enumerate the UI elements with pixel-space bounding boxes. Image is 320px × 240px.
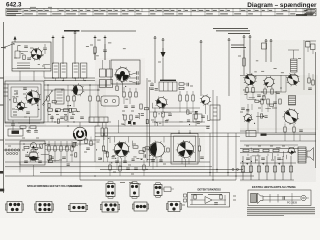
osc coil can L4	[81, 63, 87, 78]
scan tone wash left IF	[4, 76, 46, 126]
caps row y118	[50, 116, 54, 118]
mid-left nodes	[47, 84, 48, 85]
supply bus y141p	[240, 140, 316, 142]
supply parts y158	[246, 157, 250, 159]
supply bus y148p	[240, 148, 298, 150]
terminal wire 8	[200, 42, 202, 96]
rail y126 ext	[95, 125, 140, 127]
svg-text:642.3: 642.3	[6, 1, 22, 8]
switch bus y162	[5, 161, 210, 163]
detector left marks	[184, 194, 187, 197]
tuner inner parts	[23, 55, 25, 60]
cap pair right of can	[27, 130, 31, 132]
mixer below wire	[122, 82, 124, 92]
label specks top	[93, 53, 96, 55]
coil diagram B2	[36, 202, 52, 213]
note row	[81, 30, 136, 32]
left margin tick y105	[0, 104, 4, 106]
measurement note block	[213, 28, 250, 33]
output cathode parts	[284, 127, 286, 132]
padder stack	[124, 115, 126, 120]
left margin mark y190	[0, 189, 4, 192]
osc coil can mid	[55, 89, 64, 104]
gram pickup component	[161, 52, 166, 58]
right cluster mid parts	[257, 94, 261, 96]
IF input stubs	[4, 83, 9, 85]
anode resistor row mid	[179, 95, 181, 101]
switch tube V13	[27, 150, 39, 162]
switch contact chain	[5, 149, 7, 151]
audio double box	[171, 134, 198, 165]
supply bus y152p	[240, 152, 296, 154]
switch cluster extra	[24, 146, 29, 148]
left column parts audio	[85, 139, 87, 144]
bus line y169.4	[100, 168, 243, 170]
scan tone wash mid cluster	[44, 78, 106, 120]
detail cluster mixer lower	[138, 113, 139, 114]
aerial coil can L1	[53, 63, 59, 78]
supply dark bar	[261, 134, 267, 136]
converter tube V1	[30, 47, 43, 60]
switch upper circle	[31, 143, 37, 149]
switch bus y166.8	[5, 166, 212, 168]
scan tone wash tuner	[11, 41, 53, 73]
bus vertical x213b	[212, 133, 214, 180]
grid leak box right	[210, 105, 220, 120]
coupling transformer box	[159, 82, 177, 91]
speaker hookup box	[248, 190, 311, 206]
anode bar dark	[160, 79, 176, 81]
terminal wire 2	[62, 38, 64, 65]
wire h y92 right	[244, 91, 286, 93]
aerial switch	[4, 44, 14, 48]
header table frame	[6, 8, 316, 16]
central h wires	[152, 107, 200, 109]
bus line y172.5	[40, 172, 252, 174]
resistor row y110	[48, 109, 53, 111]
output transformer	[298, 147, 306, 163]
detail cluster IF box	[38, 109, 39, 110]
switch to rail stubs	[19, 162, 21, 173]
terminal wire 13	[270, 41, 272, 62]
coil diagram A2	[130, 184, 139, 197]
scan tone wash mixer	[95, 58, 145, 90]
hookup fine print	[247, 208, 315, 216]
wire h y75 right	[240, 75, 298, 77]
text bits under rails	[120, 182, 125, 184]
coil diagram B1	[7, 202, 22, 213]
audio top stubs	[178, 130, 180, 134]
detector pin labels	[191, 193, 222, 195]
header table middle rule	[6, 11, 316, 13]
V10 left parts	[102, 146, 104, 151]
electro plus marks	[246, 163, 248, 165]
coil diagram B6	[168, 202, 180, 212]
parts under mixer2	[123, 92, 125, 97]
tuner bottom wires	[12, 68, 51, 70]
V12 right parts	[198, 146, 200, 151]
speaker wires	[306, 149, 307, 151]
mixer shield box	[111, 60, 140, 84]
IF detector tube V6	[155, 96, 168, 109]
right edge boxes top	[306, 42, 311, 48]
output coil hatched	[289, 96, 296, 106]
wire x217c	[216, 96, 218, 133]
IF shield outer box	[5, 81, 44, 123]
dropper resistor right	[243, 58, 245, 66]
note over coils bold	[64, 30, 80, 32]
detector inset box	[188, 193, 230, 208]
rail nodes	[94, 175, 95, 176]
tube VA parts	[246, 88, 248, 93]
caps above V6	[150, 83, 154, 85]
terminal wire 9	[228, 40, 230, 96]
bus vertical x210	[209, 133, 211, 176]
detail cluster tuner	[38, 64, 40, 66]
IF bus pair top	[44, 77, 95, 79]
wire x258 right	[257, 112, 259, 133]
bus vertical x228	[227, 133, 229, 176]
terminal wire 3	[74, 33, 76, 64]
switch right parts	[48, 146, 50, 151]
parts x196-206	[195, 114, 197, 119]
switch bus y140	[5, 139, 100, 141]
terminal wire 12	[265, 41, 267, 62]
output pentode V12	[176, 140, 195, 159]
trimmer row under IF	[20, 126, 26, 128]
V11 pin leads	[152, 157, 154, 162]
svg-text:DETEKTORKREDS: DETEKTORKREDS	[198, 188, 222, 192]
mixer cap x105	[103, 49, 107, 51]
right edge wire	[315, 52, 317, 168]
svg-text:EKSTRA HØJTALERTILSLUTNING: EKSTRA HØJTALERTILSLUTNING	[252, 185, 296, 189]
detail cluster audio mid	[141, 159, 142, 160]
scan tone wash right top	[240, 40, 316, 95]
cells box	[89, 117, 108, 123]
V10 pin leads	[117, 157, 119, 162]
tube VB	[263, 76, 275, 88]
output tube V9	[283, 108, 300, 125]
supply resistor row	[243, 149, 249, 151]
screen resistors row	[47, 96, 49, 101]
hookup jack right	[301, 195, 306, 200]
speaker symbol	[307, 148, 314, 161]
note right small	[231, 45, 246, 48]
svg-text:( PA KABINET ): ( PA KABINET )	[69, 185, 83, 188]
wire VC top	[293, 50, 295, 59]
detail cluster central	[165, 119, 168, 121]
scan tone wash right mid	[240, 75, 318, 130]
bus vertical x217b	[216, 133, 218, 173]
mixer tube V2	[114, 66, 131, 83]
left border rule	[3, 22, 5, 193]
IF transformer can small	[8, 129, 23, 136]
osc coil box round	[101, 96, 119, 106]
tone control parts	[109, 165, 111, 170]
coil diagram B3	[70, 204, 86, 212]
tuner shield box	[12, 42, 51, 71]
terminal wire 10	[243, 37, 245, 75]
AF pre tube V7	[200, 94, 211, 105]
resistor cap row right of box	[179, 83, 184, 85]
wire x213c	[212, 90, 214, 133]
supply bus y180p	[240, 179, 294, 181]
header table column rules	[23, 8, 316, 16]
main rail y136.5	[95, 136, 240, 138]
long wire x147	[146, 78, 148, 162]
svg-text:PG 3939: PG 3939	[287, 202, 297, 205]
audio coupling parts	[133, 146, 138, 148]
detail cluster audio left	[103, 149, 106, 151]
tube VA	[243, 73, 256, 86]
main rail y133	[95, 132, 316, 134]
pilot lamp tube	[287, 147, 296, 156]
header cell text speckle	[7, 7, 315, 15]
tube VC	[286, 73, 300, 87]
switch arm diagonal	[43, 91, 52, 104]
switch right extra	[71, 146, 73, 151]
left margin tick y140	[0, 139, 4, 141]
driver coil hatched	[291, 59, 298, 72]
osc coil can L3	[73, 63, 79, 78]
supply wires top	[240, 130, 246, 132]
first AF tube V10	[113, 141, 130, 159]
mixer fan caps	[129, 73, 136, 75]
detail cluster switch	[73, 142, 75, 146]
chassis terminals	[232, 168, 234, 170]
switch labels	[8, 145, 11, 147]
bus wire y85a	[44, 84, 111, 86]
supply top small box	[246, 131, 256, 137]
oscillator triode V4	[16, 101, 27, 112]
VD wires	[247, 104, 249, 114]
tuner coils	[17, 62, 30, 64]
IF inner parts	[23, 87, 27, 89]
hookup speaker left	[258, 193, 264, 204]
IF shield inner box	[8, 84, 41, 120]
coil diagram B4	[102, 202, 118, 212]
terminal wire 11	[249, 37, 251, 74]
detector triangle	[205, 197, 212, 204]
hookup wires	[263, 196, 300, 198]
bus wire y122a	[5, 121, 111, 123]
hookup output transformer dark	[251, 194, 257, 203]
switch bus y144	[5, 143, 95, 145]
supply bus y145p	[244, 144, 298, 146]
IF shield inner box 2	[11, 87, 38, 117]
terminal wire 7	[162, 40, 164, 52]
mid-left vert stubs	[47, 107, 49, 122]
rail risers	[94, 126, 96, 162]
supply bus y163p	[240, 162, 296, 164]
detail cluster mid-left	[60, 108, 68, 110]
coil diagram A1	[106, 184, 115, 197]
long wire x149.5	[149, 87, 151, 166]
small part above B6	[164, 187, 171, 192]
bus wire y90a	[44, 89, 100, 91]
feedback wires right	[275, 92, 277, 133]
right edge vert x304	[303, 40, 305, 90]
cap pair tall	[101, 128, 104, 136]
supply labels	[246, 145, 249, 147]
detail cluster right mid	[248, 116, 251, 118]
terminal wire 5	[104, 38, 106, 61]
scan noise overlay	[0, 0, 1, 1]
dark mark pair	[128, 121, 131, 124]
terminal wire 4	[94, 38, 96, 61]
tuning indicator ring	[73, 127, 87, 141]
left margin mark y172	[0, 171, 3, 174]
mixer coil can grid	[100, 69, 106, 77]
phase splitter V11	[148, 141, 166, 159]
small tube VD	[243, 113, 253, 123]
coil diagram B5	[134, 202, 147, 211]
switch assembly box	[20, 141, 45, 165]
bus vertical x236	[235, 133, 237, 180]
right edge parts mid	[308, 78, 310, 83]
electrolytic capacitor row	[242, 156, 244, 180]
switch caps small	[50, 156, 54, 158]
scan tone wash audio	[95, 128, 205, 170]
IF coil slugs	[14, 90, 18, 92]
mixer lower caps	[124, 105, 128, 107]
coil diagram A3	[154, 185, 162, 196]
under tube parts	[115, 160, 119, 162]
bottom right small box	[193, 114, 202, 122]
label specks right top	[298, 58, 301, 60]
mixer grid resistor	[94, 47, 96, 53]
bus wire y126a	[5, 125, 100, 127]
padder capacitor	[11, 123, 15, 125]
small box x262 y43	[262, 43, 267, 49]
V12 pin leads	[181, 158, 183, 164]
aerial coil can L2	[61, 63, 67, 78]
bus line y180	[80, 179, 236, 181]
aerial input arrow	[14, 36, 17, 40]
scan tone wash central	[95, 80, 180, 130]
V6 below parts	[154, 112, 156, 117]
terminal wire 6	[154, 38, 156, 83]
detail cluster power	[252, 155, 261, 157]
tuner trimmers	[43, 47, 47, 49]
left margin tick y47	[1, 47, 4, 49]
antenna terminal wire	[52, 38, 54, 65]
scan tone wash power	[240, 128, 316, 182]
scan tone wash switch	[3, 138, 81, 170]
left margin tick y78	[0, 77, 4, 79]
bus line y176	[5, 175, 254, 177]
tube VB parts	[264, 89, 266, 94]
AVC diode V5	[71, 83, 84, 96]
IF amplifier tube V3	[25, 89, 41, 105]
supply row risers	[247, 154, 249, 156]
detector inset parts	[190, 199, 205, 201]
